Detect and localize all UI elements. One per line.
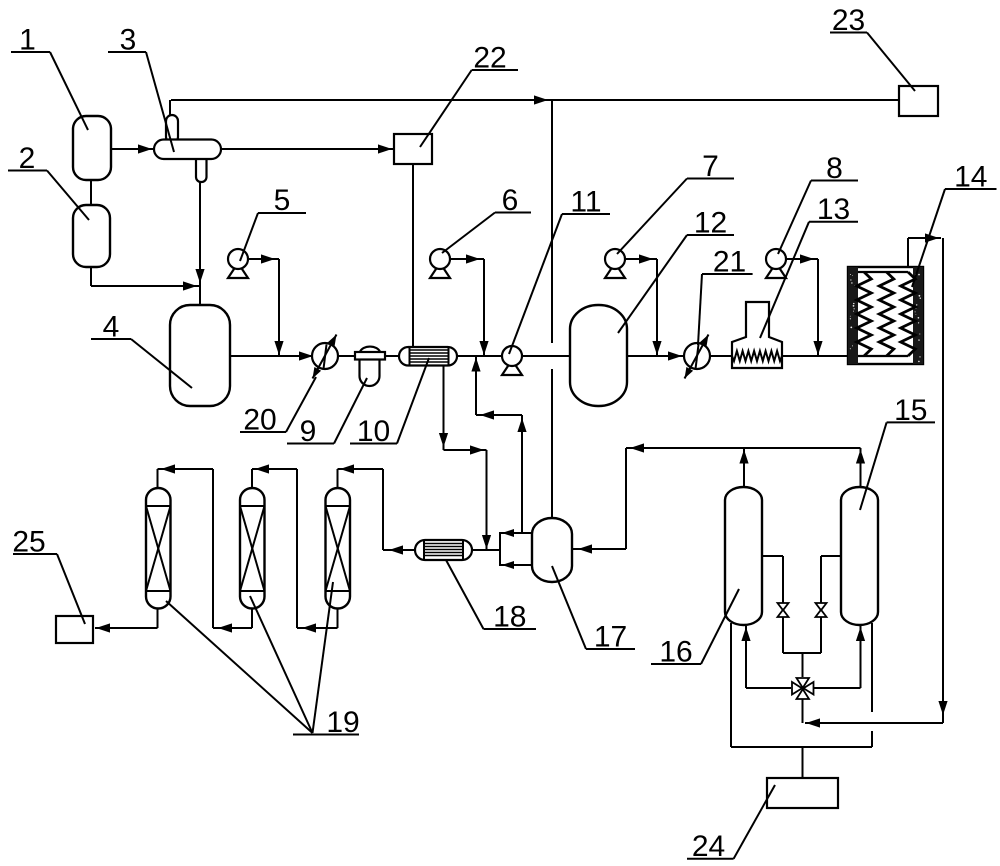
- wire: main process line y=356: [230, 355, 313, 357]
- pump 7: [605, 263, 625, 278]
- wire: tank1 to vessel3: [111, 148, 153, 150]
- valve V2 (block valve under col15 takeoff): [816, 603, 827, 610]
- tank 2: [73, 205, 110, 267]
- adsorber column 19c: [326, 488, 351, 609]
- filter 9: [360, 347, 380, 352]
- wire: column15 top stub: [860, 448, 862, 487]
- wire: exchanger18 to adsorber column C: [383, 549, 415, 551]
- pump 11 on main line: [502, 360, 522, 375]
- pump 8: [766, 263, 786, 278]
- wire: vessel3 right outlet to box22: [221, 148, 393, 150]
- column 16: [725, 487, 762, 625]
- wire: pump8 outlet: [786, 258, 818, 260]
- tank 4: [170, 305, 230, 406]
- wire: 4way valve left to col16 bottom: [746, 687, 791, 689]
- pump 5: [228, 263, 248, 278]
- valve V1 (block valve under col16 takeoff): [778, 603, 789, 610]
- fired heater 13: [732, 302, 782, 368]
- wire: tank1 bottom to tank2 top: [90, 179, 92, 206]
- wire: box22 down to exchanger10: [412, 164, 414, 347]
- wire: exchanger10 bottom drop, right, down to y550 junction: [443, 365, 445, 450]
- wire: recycle header y=448 from columns 15/16: [626, 447, 861, 449]
- vessel 3 horizontal drum: [166, 115, 178, 143]
- wire: 4way valve bottom port: [802, 699, 804, 723]
- tank 12: [570, 305, 627, 406]
- wire: vertical drop x=552 from top header to vessel 17 (gap at main line crossing): [551, 100, 553, 343]
- wire: reactor14 outlet top, right header down, to 4way valve: [907, 238, 909, 267]
- wire: tank2 bottom to junction: [90, 267, 92, 286]
- wire: column A bottom to box25: [157, 608, 159, 628]
- 4-way valve: [792, 682, 802, 695]
- wire: column16 top stub: [743, 448, 745, 487]
- adsorber column 19b: [240, 488, 265, 609]
- tank 1: [73, 116, 111, 180]
- control valve 21: [684, 343, 710, 369]
- wire: col15 bottom-right drop to bottom header (gap at crossing): [871, 623, 873, 712]
- heat exchanger 18: [415, 540, 472, 560]
- control valve 20: [312, 343, 338, 369]
- wire: pump5 outlet: [248, 258, 279, 260]
- wire: column C bottom cascade to column B top: [337, 608, 339, 628]
- wire: exchanger18 right to splitter box: [472, 549, 500, 551]
- wire: pump6 outlet: [450, 258, 484, 260]
- wire: inner manifold to 4-way valve top: [783, 652, 821, 654]
- column 15: [841, 487, 878, 625]
- splitter box on vessel 17: [500, 533, 533, 565]
- wire: vessel3 bottom drop to tank4: [199, 182, 201, 306]
- wire: vessel17 right feed from recycle header: [572, 548, 626, 550]
- box 24: [767, 778, 838, 808]
- box 23: [899, 86, 938, 116]
- wire: col16 bottom-left drop to bottom header: [730, 623, 732, 747]
- reactor 14 with coils: [848, 267, 923, 364]
- wire: bottom header to box24: [731, 746, 872, 748]
- wire: top header from vessel 3 to box 23: [171, 99, 899, 101]
- wire: column B bottom cascade to column A top: [251, 608, 253, 628]
- wire: recycle from splitter box up into main line: [521, 415, 523, 533]
- box 25: [56, 616, 93, 643]
- pump 6: [430, 263, 450, 278]
- heat exchanger 10: [399, 347, 457, 366]
- box 22 analyzer: [394, 134, 432, 164]
- wire: col15 inner takeoff through valve V2: [821, 555, 841, 557]
- wire: 4way valve right to col15 bottom: [814, 687, 861, 689]
- adsorber column 19a: [146, 488, 171, 609]
- wire: pump7 outlet: [625, 258, 657, 260]
- wire: col16 inner takeoff through valve V1: [762, 555, 783, 557]
- vessel 17 separator: [532, 518, 572, 582]
